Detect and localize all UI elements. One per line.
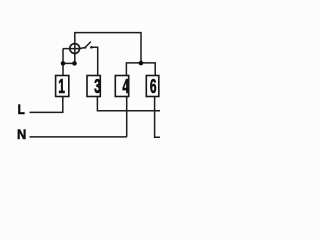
wire: terminal 4 bottom lead down to N [126,96,128,136]
circuit wiring diagram: lamp + switch with terminals 1,3,4,6 and L/N lines [0,0,160,160]
wire: terminal 1 top lead [62,63,64,75]
svg-text:3: 3 [94,76,101,98]
svg-text:4: 4 [122,76,129,98]
switch S1 fixed contact [90,46,93,49]
wire: L line up to terminal 1 [30,96,63,112]
wire: lamp horizontal to switch pivot [63,48,85,49]
wire: terminal 6 bottom lead, corner to right edge [155,96,160,137]
terminal box 3 [87,76,100,97]
wire: N line [30,136,127,138]
terminal box 6 [146,76,159,97]
junction dot at rail split [139,61,144,66]
wire: link between junction dots [63,62,75,64]
junction dot right (lamp bottom) [72,61,77,66]
junction dot left (node to terminal 1) [61,61,66,66]
lamp E1 [70,44,80,54]
svg-text:L: L [18,101,25,117]
switch S1 pivot [84,47,86,49]
wire: terminal 3 bottom lead, link to right edge [97,96,160,110]
svg-text:N: N [17,127,26,143]
svg-text:1: 1 [58,76,65,98]
wire: rail above boxes 4 and 6 with drops [126,63,155,76]
switch S1 lever [85,42,91,48]
terminal box 1 [56,76,69,97]
svg-text:6: 6 [150,76,157,98]
terminal box 4 [115,76,128,97]
wire: top rail from lamp up, right, down to junction [75,33,141,64]
wire: left branch down from lamp-left corner [62,49,64,64]
wire: switch fixed contact to terminal 3 [91,47,98,76]
